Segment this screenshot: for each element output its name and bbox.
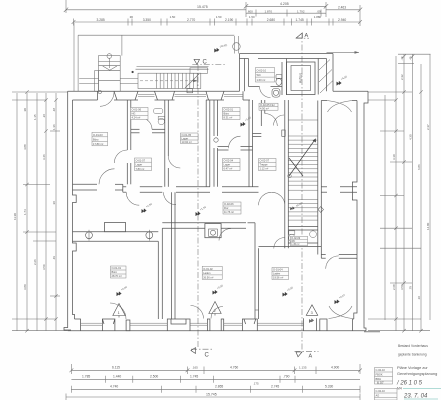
svg-text:Aufzug: Aufzug [299,73,303,83]
svg-text:3.46: 3.46 [42,154,46,160]
svg-text:4.50 m²: 4.50 m² [260,107,269,111]
svg-text:1.50: 1.50 [216,15,222,19]
svg-text:M4: M4 [397,387,402,391]
entry stair top-left [95,54,121,92]
lift shaft inner [291,66,311,91]
entrance double door bottom arcs [329,306,353,319]
svg-text:O-01-04: O-01-04 [273,268,283,272]
svg-text:1.880: 1.880 [314,15,322,19]
svg-text:3.285: 3.285 [97,18,105,22]
stairwell west wall [284,100,286,248]
top wall window thin lines [138,95,243,97]
svg-text:O-02-04: O-02-04 [224,159,234,163]
svg-text:1.50: 1.50 [249,15,255,19]
svg-text:Lager: Lager [136,163,143,167]
svg-text:1.745: 1.745 [296,18,304,22]
leader line top right [327,51,360,53]
svg-text:2.865: 2.865 [215,385,223,389]
WC south wall w/ door gap [249,86,260,88]
svg-text:O-01-06: O-01-06 [132,108,142,112]
staircase [288,120,318,220]
svg-text:2.37: 2.37 [426,124,430,130]
svg-text:Büro: Büro [112,270,118,274]
WC room bottom [289,231,317,246]
svg-text:.49: .49 [52,256,56,260]
svg-text:+0.00: +0.00 [120,285,128,292]
left dimension chains [12,90,68,332]
svg-text:O-01-03: O-01-03 [93,133,103,137]
svg-text:4.205: 4.205 [280,2,289,6]
svg-text:.36: .36 [417,296,421,300]
svg-text:4.88: 4.88 [23,144,27,150]
svg-text:O-01-07: O-01-07 [136,158,146,162]
svg-text:FBOK: FBOK [376,373,383,377]
svg-text:1.792: 1.792 [297,9,305,13]
svg-text:O-01-05: O-01-05 [182,133,192,137]
corridor walls right part [248,222,256,224]
svg-text:23. 7. 04: 23. 7. 04 [403,394,428,400]
exterior walls [64,89,380,332]
svg-text:1.50: 1.50 [170,15,176,19]
svg-text:.96: .96 [52,201,56,205]
top dimension row total 15.475 [64,0,246,13]
svg-text:11.90: 11.90 [13,213,17,220]
svg-text:Büro: Büro [224,112,230,116]
right dimension chains [368,54,431,332]
shop door arc bottom left [110,303,126,319]
lift shaft outer [287,62,316,95]
svg-text:17.80 m²: 17.80 m² [93,142,103,146]
wall bath | lager13 [164,100,166,144]
svg-text:15.745: 15.745 [206,393,217,397]
diele double door top arcs [327,101,352,113]
svg-text:+0.00: +0.00 [286,285,294,292]
wall lager13 | buero831 [205,100,207,187]
svg-text:3.350: 3.350 [143,18,151,22]
vent pipes with circle [233,36,235,54]
section marker C bottom [191,348,210,359]
svg-text:2.500: 2.500 [150,375,158,379]
section marker A bottom [296,352,313,360]
svg-text:14.80: 14.80 [426,222,430,230]
corridor stub walls top right [260,100,262,126]
svg-text:1.12 m²: 1.12 m² [260,167,269,171]
svg-text:1.135: 1.135 [299,366,307,370]
washbasin lobby [272,89,280,98]
bottom wall outer face [68,330,366,332]
svg-text:2.940: 2.940 [338,18,346,22]
svg-text:Pläne Vorlage zur: Pläne Vorlage zur [397,365,428,370]
svg-text:4.740: 4.740 [110,385,118,389]
svg-text:.600: .600 [247,9,253,13]
svg-text:6.47 m²: 6.47 m² [224,167,233,171]
chimney block left [105,223,126,232]
buero831 west wall with door [213,100,215,136]
svg-text:+2.50: +2.50 [145,202,153,209]
svg-text:A: A [305,33,309,39]
svg-text:+1.00: +1.00 [244,115,252,122]
svg-text:.175: .175 [253,382,259,386]
svg-text:.26: .26 [42,114,46,118]
top dimension sub row [246,9,326,16]
svg-text:1.15: 1.15 [33,114,37,120]
svg-text:6.07: 6.07 [377,381,384,385]
entry door top-left [98,90,114,106]
svg-text:Lager: Lager [224,163,231,167]
svg-text:.09: .09 [317,9,322,13]
svg-text:19.56 m²: 19.56 m² [273,276,283,280]
svg-text:11.76 m²: 11.76 m² [224,210,234,214]
svg-text:2.463: 2.463 [338,6,346,10]
top wall inner face segments [73,99,98,101]
top dimension row 2 segments [72,15,362,91]
svg-text:2.680: 2.680 [267,18,275,22]
svg-text:2: 2 [214,309,216,313]
svg-text:1.45 m²: 1.45 m² [291,243,299,246]
svg-text:5.330: 5.330 [325,385,333,389]
interior walls [73,100,358,319]
svg-text:7.80 m²: 7.80 m² [136,167,145,171]
svg-text:1.440: 1.440 [113,375,121,379]
svg-text:Flur: Flur [224,206,229,210]
svg-text:A: A [309,354,313,360]
level markers (bowties) [117,43,348,304]
window center post top [187,89,193,93]
svg-text:HG: HG [132,112,136,116]
svg-text:Büro: Büro [93,137,99,141]
svg-text:28.70 m²: 28.70 m² [112,274,122,278]
svg-text:O-02-05 Flur: O-02-05 Flur [260,103,275,107]
top wall pier side edges (splayed) [97,91,99,100]
svg-text:O-02-07: O-02-07 [260,159,270,163]
svg-text:.79: .79 [409,286,413,290]
left wall outer face with bottom corner notch [64,91,71,330]
svg-text:13.04 m²: 13.04 m² [182,140,192,144]
svg-text:1.36: 1.36 [52,124,56,130]
svg-text:Treppe: Treppe [260,163,269,167]
light shaft hatch [319,60,330,71]
top wall outer face [68,90,240,92]
bottom wall piers [75,318,354,330]
corridor north wall right part [123,187,357,192]
svg-text:O-02-01: O-02-01 [224,108,234,112]
laden19 door arc [326,256,339,269]
svg-text:Genehmigungsplanung: Genehmigungsplanung [397,371,437,376]
svg-text:.48: .48 [52,108,56,112]
svg-text:1.745: 1.745 [190,375,198,379]
room1 south door arc [99,169,115,185]
wall east of buero831/lager647 [248,100,250,187]
svg-text:(-0.41): (-0.41) [219,43,228,49]
svg-text:.790: .790 [283,375,290,379]
svg-text:O-01-01: O-01-01 [112,266,122,270]
bathroom fixtures top [154,108,165,124]
bottom dimension rows [66,364,362,400]
buero831 south wall [218,146,229,148]
svg-text:C-02-10: C-02-10 [376,389,386,393]
svg-text:+1.34: +1.34 [199,205,207,212]
svg-text:.96: .96 [129,15,133,19]
corridor door arcs on north wall [126,192,139,205]
toilet in WC [276,75,282,79]
svg-text:O-02-10: O-02-10 [257,68,267,72]
wall laden2656 | laden1956 [254,223,256,319]
section marker A top [296,33,308,39]
WC door arc [260,87,271,98]
section line C (dash-dot vertical) [191,65,225,350]
svg-text:.49: .49 [409,56,413,60]
svg-text:WC: WC [257,73,261,77]
svg-text:AG: AG [376,394,380,398]
svg-text:3.80: 3.80 [23,284,27,290]
svg-text:C-02-10: C-02-10 [376,368,386,372]
svg-text:+0.00: +0.00 [216,283,224,290]
svg-text:Laden: Laden [273,272,281,276]
corridor south wall left part [162,222,246,224]
svg-text:2.26: 2.26 [33,259,37,265]
svg-text:2.770: 2.770 [187,18,195,22]
chimney block mid [205,224,221,238]
svg-text:2.32: 2.32 [400,74,404,80]
svg-text:.49: .49 [400,56,404,60]
svg-text:Bestand Vorderhaus: Bestand Vorderhaus [398,344,428,348]
room label boxes [92,68,289,280]
svg-text:6.86: 6.86 [417,164,421,170]
warning triangles [113,302,318,323]
svg-text:2.190: 2.190 [225,18,233,22]
WC east wall [281,62,283,95]
svg-text:1.60 m²: 1.60 m² [257,78,266,82]
wall room1 | bath [126,100,128,150]
svg-text:4.900: 4.900 [331,366,339,370]
svg-text:+0.07: +0.07 [338,293,346,300]
section marker C top [194,59,208,65]
corridor door arcs [265,114,278,127]
svg-text:26.56 m²: 26.56 m² [203,275,213,279]
svg-text:6.115: 6.115 [112,366,120,370]
shop door arcs mid [191,306,204,319]
annex top right [240,51,360,97]
top dimension row annex 4.205 [244,2,362,26]
svg-text:3.59: 3.59 [400,284,404,290]
flur west wall / laden26 west wall [171,192,173,319]
bath door arc [141,118,153,130]
svg-text:2.68: 2.68 [392,284,396,290]
svg-text:4.30: 4.30 [409,134,413,140]
svg-text:.165: .165 [192,366,198,370]
bottom wall shopfront sills [81,323,304,325]
diamond door symbol [318,207,323,213]
svg-text:1.74: 1.74 [23,209,27,215]
svg-text:4.760: 4.760 [230,366,238,370]
svg-text:8.31 m²: 8.31 m² [224,116,233,120]
right wall outer with top corner bump [364,91,368,330]
svg-text:3.10: 3.10 [392,154,396,160]
svg-text:.90: .90 [23,108,27,112]
right wall inner with pilaster [352,101,357,320]
exterior long stair top [136,67,209,89]
svg-text:O-02-06: O-02-06 [224,202,234,206]
lager13 west door arc [168,156,180,168]
wall buero2870 | laden2656 [157,241,159,319]
svg-text:Lager: Lager [182,136,189,140]
front garden court top-left [78,35,240,91]
svg-text:C: C [203,60,208,66]
svg-text:3.59: 3.59 [42,264,46,270]
bath south wall [131,128,140,130]
svg-text:15.475: 15.475 [197,5,208,9]
svg-text:1: 1 [118,311,120,315]
svg-text:Laden: Laden [203,271,211,275]
svg-text:O-01-02: O-01-02 [203,267,213,271]
title block [375,344,441,400]
left wall inner face with pilasters [73,100,77,319]
svg-text:C: C [205,353,210,359]
svg-text:2.745: 2.745 [271,385,279,389]
svg-text:1.870: 1.870 [265,9,273,13]
svg-text:1.785: 1.785 [82,375,90,379]
stairwell east wall [317,101,319,255]
section line A (dash-dot vertical) [295,33,319,351]
buero831 door arc [229,136,241,148]
svg-text:3: 3 [311,311,313,315]
left back wall with columns [73,230,159,242]
svg-text:geplante Sanierung: geplante Sanierung [398,353,427,357]
svg-text:+4.00: +4.00 [340,74,348,81]
svg-text:4.24 m²: 4.24 m² [132,116,141,120]
corridor north wall left part [73,184,123,192]
